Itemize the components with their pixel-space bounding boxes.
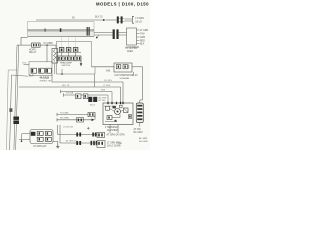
svg-text:GRN: GRN [140,37,145,39]
svg-text:18-LG: 18-LG [135,21,142,24]
svg-text:F4 20A: F4 20A [66,91,74,94]
svg-text:SPEED YEL: SPEED YEL [40,80,53,82]
svg-text:MODELS | D100, D150: MODELS | D100, D150 [96,2,149,7]
svg-text:A-B: A-B [106,69,110,72]
svg-text:BLK 18: BLK 18 [62,85,70,87]
svg-text:RELAY: RELAY [29,51,37,54]
svg-text:DK GRN: DK GRN [134,132,143,134]
svg-text:B2 YEL: B2 YEL [99,100,107,102]
svg-text:RED: RED [140,41,145,43]
svg-text:H2 18BR: H2 18BR [44,43,54,45]
svg-text:SCHEMA: SCHEMA [120,77,130,80]
svg-text:4 TERMINAL: 4 TERMINAL [105,126,119,129]
svg-text:AT GRN 18: AT GRN 18 [66,139,77,142]
svg-text:DK GRN: DK GRN [139,141,148,143]
svg-text:18-LG: 18-LG [90,105,96,107]
svg-text:LT GRN BRN: LT GRN BRN [107,142,121,144]
svg-text:SWITCH: SWITCH [62,65,71,67]
svg-text:BLK 20: BLK 20 [95,17,103,19]
svg-text:AT GRN DK GRN: AT GRN DK GRN [107,134,125,137]
svg-text:BLK: BLK [29,75,34,78]
svg-text:BLK: BLK [140,44,145,46]
svg-text:A1 GRN: A1 GRN [99,96,107,99]
svg-text:LT GRN: LT GRN [140,30,149,32]
svg-text:18-LG 18-BR: 18-LG 18-BR [107,146,121,148]
svg-text:4A 18LB: 4A 18LB [40,76,50,79]
svg-text:LO BLOW: LO BLOW [63,127,74,129]
svg-text:AT GRN ALT: AT GRN ALT [33,145,47,148]
svg-text:FLASHER: FLASHER [107,129,118,132]
svg-text:P2 18BK: P2 18BK [60,112,69,114]
svg-text:TAN: TAN [140,33,145,36]
svg-text:DK GRN: DK GRN [104,80,112,82]
svg-text:IGN STARTER RELAY: IGN STARTER RELAY [115,74,139,77]
svg-text:FEED: FEED [127,51,133,53]
svg-text:H4 18RD: H4 18RD [60,118,69,120]
svg-text:TO IGN SW: TO IGN SW [125,48,138,50]
svg-text:BLK: BLK [23,63,28,65]
svg-text:AT 150: AT 150 [134,128,142,131]
svg-text:AT GRN: AT GRN [139,137,147,140]
